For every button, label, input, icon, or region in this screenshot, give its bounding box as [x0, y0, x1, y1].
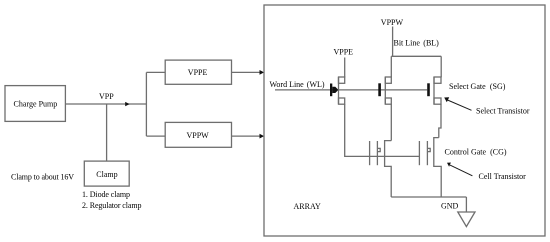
net label Bit Line (BL)	[394, 39, 440, 48]
wire branch to VPPW block	[146, 135, 165, 137]
svg-text:(BL): (BL)	[423, 39, 439, 48]
wire VPP down to Clamp	[106, 104, 108, 161]
svg-text:(SG): (SG)	[490, 82, 506, 91]
wire ground rail	[391, 196, 466, 198]
memory cell transistor M1 (floating gate)	[370, 141, 392, 197]
block Clamp	[84, 161, 129, 186]
wire BL down to select transistor Q3 drain	[440, 56, 442, 77]
wire word line WL	[275, 89, 427, 91]
net label Select Gate (SG)	[449, 82, 506, 91]
wire BL down to transistor Q2 drain	[390, 56, 392, 77]
wire bit line BL horizontal	[391, 55, 441, 57]
svg-text:Select Transistor: Select Transistor	[476, 107, 530, 116]
svg-text:Charge Pump: Charge Pump	[14, 99, 58, 108]
arrowhead on VPP wire	[125, 102, 129, 106]
block VPPW	[165, 122, 231, 147]
block VPPE	[165, 60, 231, 84]
svg-text:VPPW: VPPW	[187, 131, 210, 140]
svg-text:Cell Transistor: Cell Transistor	[479, 172, 527, 181]
svg-text:Bit Line: Bit Line	[394, 39, 421, 48]
svg-text:Control Gate: Control Gate	[445, 148, 487, 157]
callout Select Transistor with leader arrow	[444, 97, 530, 115]
svg-text:Word Line: Word Line	[270, 80, 305, 89]
wire branch to VPPE block	[146, 71, 165, 73]
wire Q2 source down to cell M1 drain	[390, 104, 392, 140]
svg-text:Select Gate: Select Gate	[449, 82, 486, 91]
svg-text:GND: GND	[441, 202, 459, 211]
callout Cell Transistor with leader arrow	[447, 163, 526, 182]
wire VPPW to ARRAY with arrowhead	[232, 134, 265, 139]
wire VPPW stem to bit line	[392, 27, 394, 57]
wire VPPE stem to transistor Q1 drain	[344, 58, 346, 78]
svg-text:2. Regulator clamp: 2. Regulator clamp	[82, 201, 142, 210]
svg-text:Clamp: Clamp	[96, 170, 117, 179]
wire VPPE to ARRAY with arrowhead	[232, 70, 265, 75]
wire VPP branch vertical	[145, 72, 147, 136]
block Charge Pump	[5, 86, 65, 122]
ARRAY block outline	[264, 5, 545, 236]
net label Control Gate (CG)	[445, 148, 507, 157]
ground	[458, 212, 475, 227]
svg-text:VPPW: VPPW	[381, 18, 404, 27]
wire to ground symbol	[465, 197, 467, 212]
svg-text:(WL): (WL)	[307, 80, 325, 89]
net label Word Line (WL)	[270, 80, 325, 89]
svg-text:Clamp to about 16V: Clamp to about 16V	[11, 173, 74, 182]
transistor Q1 (VPPE pass transistor, WL arrowhead on gate)	[330, 77, 345, 104]
transistor Q3 (select transistor SG)	[427, 77, 441, 104]
wire VPP from Charge Pump to branch point	[66, 103, 147, 105]
svg-text:(CG): (CG)	[490, 148, 507, 157]
svg-text:VPPE: VPPE	[188, 68, 208, 77]
transistor Q2 (bit line pass transistor)	[378, 77, 391, 104]
wire Q3 source down to cell M2 drain	[439, 104, 441, 137]
svg-text:1. Diode clamp: 1. Diode clamp	[82, 190, 130, 199]
wire Q1 source to control gate line CG	[345, 104, 420, 156]
svg-text:VPP: VPP	[99, 92, 114, 101]
memory cell transistor M2 (floating gate)	[419, 138, 441, 197]
svg-text:VPPE: VPPE	[334, 48, 354, 57]
svg-text:ARRAY: ARRAY	[294, 202, 321, 211]
